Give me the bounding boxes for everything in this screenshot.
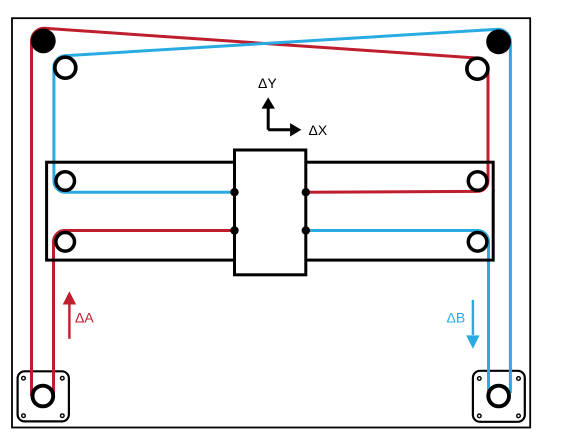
svg-text:ΔA: ΔA (75, 310, 94, 326)
svg-text:ΔY: ΔY (258, 75, 277, 91)
svg-text:ΔB: ΔB (447, 310, 466, 326)
svg-text:ΔX: ΔX (309, 122, 328, 138)
